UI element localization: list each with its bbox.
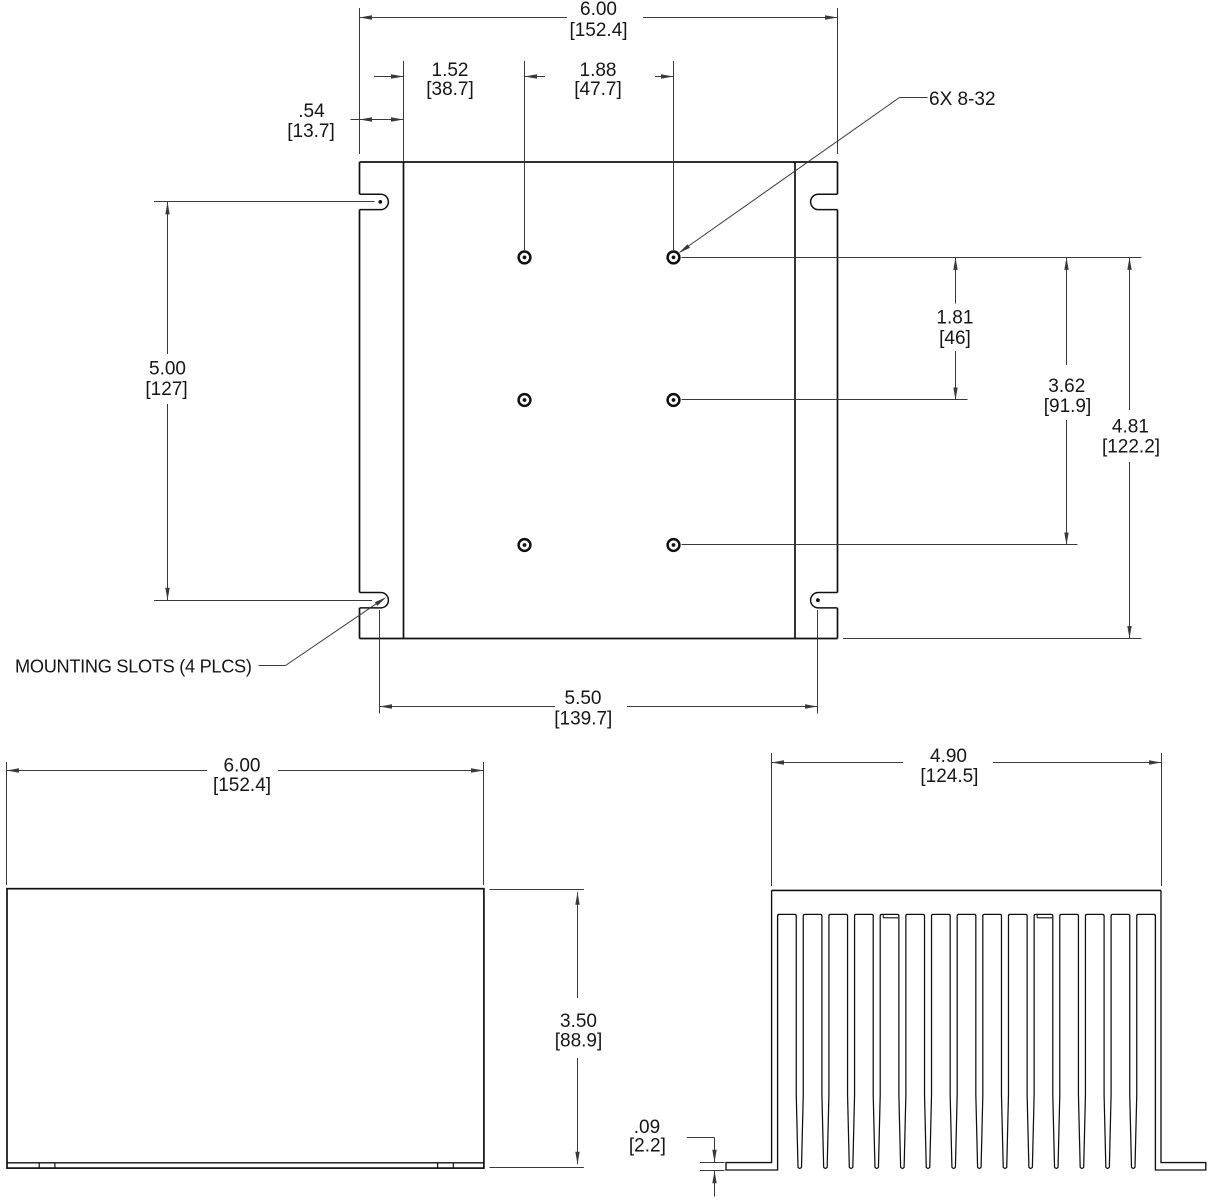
svg-text:1.52: 1.52 <box>432 60 469 81</box>
svg-text:[38.7]: [38.7] <box>426 79 474 100</box>
svg-text:6X 8-32: 6X 8-32 <box>929 89 996 110</box>
svg-text:[47.7]: [47.7] <box>574 79 622 100</box>
svg-text:6.00: 6.00 <box>224 756 261 777</box>
svg-text:[13.7]: [13.7] <box>287 121 335 142</box>
svg-text:1.88: 1.88 <box>580 60 617 81</box>
svg-text:6.00: 6.00 <box>580 0 617 20</box>
svg-text:[139.7]: [139.7] <box>554 709 612 730</box>
svg-text:4.90: 4.90 <box>930 746 967 767</box>
svg-text:[46]: [46] <box>939 328 971 349</box>
svg-text:[152.4]: [152.4] <box>569 20 627 41</box>
svg-text:[127]: [127] <box>145 379 187 400</box>
svg-text:1.81: 1.81 <box>936 308 973 329</box>
svg-text:[152.4]: [152.4] <box>213 775 271 796</box>
svg-text:5.50: 5.50 <box>565 688 602 709</box>
svg-text:[88.9]: [88.9] <box>555 1031 603 1052</box>
svg-text:3.62: 3.62 <box>1048 376 1085 397</box>
svg-text:[91.9]: [91.9] <box>1044 396 1092 417</box>
svg-text:3.50: 3.50 <box>560 1011 597 1032</box>
svg-text:MOUNTING SLOTS (4 PLCS): MOUNTING SLOTS (4 PLCS) <box>15 656 252 676</box>
svg-text:[2.2]: [2.2] <box>629 1136 666 1157</box>
svg-text:[122.2]: [122.2] <box>1102 437 1160 458</box>
svg-text:[124.5]: [124.5] <box>920 766 978 787</box>
svg-text:.54: .54 <box>298 101 325 122</box>
svg-text:5.00: 5.00 <box>149 359 186 380</box>
svg-text:4.81: 4.81 <box>1112 417 1149 438</box>
